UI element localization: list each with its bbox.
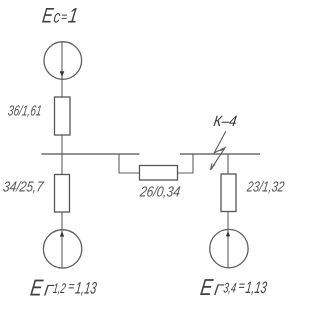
- reactance box 36/1,61: [55, 97, 71, 135]
- right bus: [180, 153, 260, 155]
- svg-text:К–4: К–4: [212, 113, 237, 130]
- generator Eг3,4 circle: [210, 229, 248, 267]
- svg-text:1,2: 1,2: [52, 280, 67, 296]
- wire bus to box 34/25,7: [61, 154, 63, 175]
- reactance box 26/0,34: [140, 166, 178, 181]
- wire through generator Eг3,4: [227, 230, 229, 268]
- source Ec circle: [44, 42, 82, 80]
- svg-text:23/1,32: 23/1,32: [245, 179, 285, 195]
- label Ec=1: [41, 5, 80, 28]
- wire right bus to box 23/1,32: [227, 154, 229, 174]
- wire box to bus: [61, 135, 63, 154]
- svg-text:1,13: 1,13: [244, 278, 268, 297]
- short-circuit bolt K-4: [211, 131, 226, 170]
- label Eг3,4=1,13: [199, 274, 269, 300]
- svg-text:3,4: 3,4: [223, 279, 238, 295]
- svg-text:34/25,7: 34/25,7: [2, 179, 45, 195]
- left bus: [42, 153, 140, 155]
- svg-text:36/1,61: 36/1,61: [7, 103, 43, 119]
- wire through generator Eг1,2: [61, 230, 63, 268]
- reactance box 34/25,7: [55, 175, 70, 213]
- reactance box 23/1,32: [221, 174, 236, 212]
- wire step up to right bus: [178, 154, 194, 173]
- svg-text:26/0,34: 26/0,34: [138, 184, 181, 200]
- generator Eг1,2 circle: [43, 230, 81, 268]
- arrow up in generator Eг1,2: [60, 231, 64, 237]
- wire through source Ec: [61, 42, 63, 97]
- wire box to generator Eг1,2: [61, 212, 63, 230]
- arrow down in source Ec: [60, 71, 65, 77]
- label Eг1,2=1,13: [29, 275, 99, 301]
- svg-text:1,13: 1,13: [74, 279, 98, 298]
- wire box to generator Eг3,4: [227, 212, 229, 230]
- arrow up in generator Eг3,4: [226, 231, 230, 237]
- wire step down from left bus: [119, 154, 140, 173]
